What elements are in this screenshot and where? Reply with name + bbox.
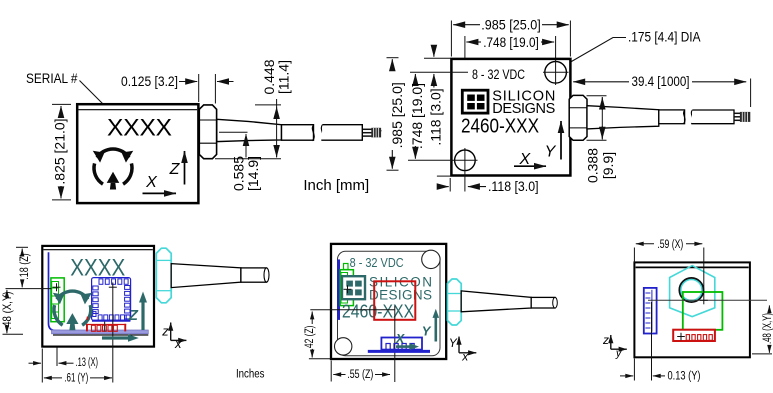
extension line left datum [6,288,52,290]
axis X arrow teal (drawing3) [102,334,139,342]
dimension .825 [21.0] [52,104,72,199]
svg-text:.175 [4.4] DIA: .175 [4.4] DIA [628,29,701,45]
datum cross (drawing4 left) [344,285,352,293]
svg-text:39.4 [1000]: 39.4 [1000] [632,73,690,89]
extension line vertical .55 [394,306,396,382]
pcb internal box (bottom-middle) [331,244,446,359]
svg-text:X: X [518,151,531,168]
dimension .748 [19.0] vertical [408,72,468,160]
svg-text:Inches: Inches [236,368,265,380]
pcb bottom bar periwinkle [52,330,149,335]
svg-text:.748 [19.0]: .748 [19.0] [409,83,425,149]
cyan circle (drawing5) [681,279,702,300]
green tick (drawing4) [344,264,349,270]
axis indicator z/x (drawing3) [161,323,186,351]
dimension .42 (Z) [302,312,331,359]
teal logo (drawing4) [342,276,365,299]
svg-text:.48 (X,Y): .48 (X,Y) [762,313,773,344]
dimension .61 (Y) [42,349,112,385]
ESD symbol [93,149,133,190]
svg-text:[14.9]: [14.9] [245,156,261,191]
red connector side view (drawing5) [673,330,715,341]
dimension .748 [19.0] horizontal [465,34,556,148]
pcb hole bottom-left (drawing4) [335,338,352,355]
center line horizontal (drawing5) [648,299,767,301]
cable wire strands (drawing2) [734,112,750,122]
svg-text:z: z [161,324,169,339]
cable segment (drawing2) [691,110,734,124]
center cross + vertical extension (drawing5) [700,248,708,305]
leader line serial [80,81,113,114]
Silicon Designs logo [462,90,488,113]
pcb hole top-right (drawing4) [422,250,440,268]
svg-text:.59 (X): .59 (X) [657,239,683,251]
svg-text:Z: Z [169,161,181,178]
red IC outline (drawing4) [374,281,415,320]
dimension 0.388 [9.9] [585,96,617,183]
8 - 32 VDC teal (drawing4) [350,256,404,270]
cyan hex nut (drawing4) [447,279,461,325]
pcb edge blue [49,252,61,330]
axis indicator Y/x (drawing4) [449,336,477,364]
blue pcb edge bar (drawing4) [337,259,340,320]
axis Y arrow (drawing2) [545,121,561,161]
cable (drawing3) [171,264,269,288]
green connector footprint (drawing3) [51,278,64,322]
XXXX serial text [107,114,172,141]
svg-text:.18 (Z): .18 (Z) [17,253,31,280]
strain relief taper (drawing2) [587,106,685,129]
units note Inches [236,368,265,380]
svg-text:Z: Z [128,307,139,324]
dimension .48 (X,Y) right [752,305,773,354]
svg-text:.42 (Z): .42 (Z) [302,326,316,351]
axis indicator z/y (drawing5) [602,333,627,360]
dimension .118 [3.0] vertical [424,45,451,146]
cable wire strands (drawing1) [363,128,382,138]
dimension .59 (X) [634,239,702,263]
svg-text:X: X [145,174,158,191]
dimension .175 [4.4] DIA with leader [565,29,702,66]
svg-text:X: X [395,332,405,346]
SILICON DESIGNS teal (drawing4) [369,274,432,302]
svg-text:8 - 32 VDC: 8 - 32 VDC [472,67,525,82]
units note Inch [mm] [303,177,369,194]
dimension .18 (Z) [16,247,31,287]
svg-text:.48 (X,Y): .48 (X,Y) [0,292,14,330]
svg-text:8 - 32 VDC: 8 - 32 VDC [350,256,404,270]
8 - 32 VDC marking [472,67,525,82]
svg-text:.985 [25.0]: .985 [25.0] [389,82,405,148]
svg-text:DESIGNS: DESIGNS [369,287,432,302]
axis Z label teal (drawing3) [128,307,139,324]
svg-text:.118 [3.0]: .118 [3.0] [488,178,539,194]
svg-text:Y: Y [422,323,432,338]
svg-text:0.125 [3.2]: 0.125 [3.2] [121,73,178,89]
mounting hole top-right [543,60,569,85]
dimension 0.13 (Y) [620,302,701,383]
svg-text:Y: Y [545,144,557,161]
axis Z arrow teal (drawing3) [139,292,147,331]
dimension .55 (Z) [331,361,390,382]
svg-text:x: x [461,349,469,363]
sensor body box (side view) [77,104,198,203]
datum cross (drawing3 left) [53,283,61,291]
SILICON DESIGNS wordmark [492,88,555,117]
dimension .985 [25.0] horizontal [451,17,570,57]
strain relief taper (drawing1) [217,119,314,141]
blue IC footprint (drawing3) [92,278,131,321]
svg-text:[11.4]: [11.4] [276,60,292,94]
axis X arrow teal (drawing4) [395,332,419,350]
svg-text:x: x [174,336,182,351]
dimension .985 [25.0] vertical [387,58,451,176]
axis X arrow (drawing2) [514,151,546,168]
svg-text:.61 (Y): .61 (Y) [64,372,88,384]
cable break symbol (drawing2) [684,110,693,124]
svg-text:.13 (X): .13 (X) [76,357,99,369]
cyan hex nut front view (drawing5) [670,266,715,317]
dimension 0.585 [14.9] [219,132,261,191]
svg-text:Y: Y [449,336,458,350]
svg-text:.118 [3.0]: .118 [3.0] [427,88,443,145]
axis Y arrow teal (drawing4) [422,309,439,342]
ESD symbol teal (drawing3) [53,291,92,330]
cable segment (drawing1) [322,125,363,141]
svg-text:2460-XXX: 2460-XXX [461,116,539,138]
cable (drawing4) [461,291,557,312]
XXXX silkscreen teal [70,255,125,282]
svg-text:.985 [25.0]: .985 [25.0] [481,17,541,33]
svg-text:0.13 (Y): 0.13 (Y) [668,371,701,383]
svg-text:.748 [19.0]: .748 [19.0] [483,34,539,50]
cyan hex nut (drawing3) [156,248,171,303]
svg-text:[9.9]: [9.9] [600,152,616,179]
green module outline (drawing5) [683,292,723,330]
dimension 39.4 [1000] cable length [573,73,750,107]
sensor body box (top view) [451,59,570,176]
svg-text:.825 [21.0]: .825 [21.0] [52,118,68,184]
datum cross red connector (drawing5) [677,333,685,341]
hex nut connector (drawing2) [569,95,587,140]
svg-text:.55 (Z): .55 (Z) [347,369,373,381]
dimension .48 (X,Y) left [0,290,23,334]
green connector footprint (drawing4) [340,270,353,306]
dimension .13 (X) [29,348,99,370]
dimension 0.125 [3.2] [121,73,234,104]
red connector footprint (drawing3) [86,317,126,332]
svg-text:XXXX: XXXX [107,114,172,141]
dimension 0.448 [11.4] [215,59,292,158]
blue connector (drawing4) [368,338,430,352]
hex nut connector (drawing1) [199,105,216,159]
2460-XXX teal (drawing4) [342,301,414,321]
axis X arrow (drawing1) [143,174,177,194]
pcb outline thin [338,251,441,355]
extension line horizontal .42 [310,309,395,311]
mounting hole bottom-left [453,148,478,192]
dimension .118 [3.0] bottom [437,178,539,194]
blue connector side view (drawing5) [644,288,657,334]
pcb internal box (bottom-left) [42,246,154,347]
center extension line (drawing3) [109,283,117,383]
svg-text:Inch [mm]: Inch [mm] [303,177,369,194]
cable break symbol (drawing1) [312,125,323,141]
pcb internal box (bottom-right) [634,262,750,357]
svg-text:z: z [602,333,609,347]
2460-XXX model text [461,116,539,138]
svg-text:2460-XXX: 2460-XXX [342,301,414,321]
svg-text:SERIAL #: SERIAL # [26,70,78,86]
svg-text:0.388: 0.388 [585,148,601,183]
black circle cable entry (drawing5) [679,278,703,302]
serial number label [26,70,78,86]
axis Z arrow (drawing1) [169,151,185,185]
